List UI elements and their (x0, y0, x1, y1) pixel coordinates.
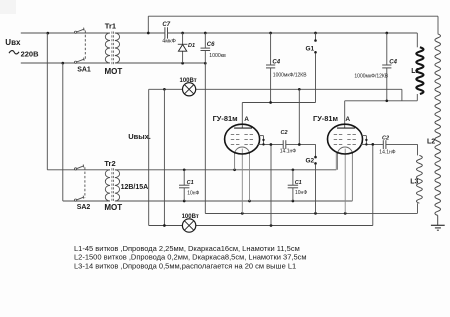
svg-text:МОТ: МОТ (104, 203, 122, 212)
svg-text:Uвых.: Uвых. (128, 132, 151, 141)
svg-text:1000мкФ/12КВ: 1000мкФ/12КВ (273, 73, 307, 79)
svg-text:C1: C1 (187, 180, 194, 186)
svg-text:SA2: SA2 (77, 204, 91, 211)
svg-text:100Вт: 100Вт (182, 214, 199, 220)
svg-text:C7: C7 (162, 22, 170, 28)
svg-text:D1: D1 (188, 43, 195, 49)
svg-text:12В/15А: 12В/15А (121, 184, 149, 191)
svg-text:1000кв: 1000кв (209, 53, 226, 59)
svg-text:C1: C1 (295, 180, 302, 186)
svg-text:4мкФ: 4мкФ (162, 38, 176, 44)
svg-text:A: A (244, 116, 249, 123)
svg-text:G1: G1 (306, 46, 315, 53)
svg-text:ГУ-81м: ГУ-81м (313, 114, 338, 123)
svg-text:C2: C2 (382, 136, 389, 142)
svg-text:220В: 220В (21, 49, 40, 58)
svg-text:C2: C2 (281, 130, 288, 136)
svg-text:Tr1: Tr1 (105, 21, 116, 30)
svg-text:10нФ: 10нФ (295, 190, 307, 196)
svg-text:C4: C4 (389, 59, 397, 65)
svg-text:SA1: SA1 (77, 67, 91, 74)
svg-text:1000мкФ/12КВ: 1000мкФ/12КВ (354, 74, 388, 80)
svg-text:L1: L1 (411, 68, 419, 75)
svg-text:L2: L2 (427, 139, 435, 146)
svg-text:L3: L3 (410, 178, 418, 185)
svg-text:L3-14 витков ,Dпровода 0,5мм,р: L3-14 витков ,Dпровода 0,5мм,располагает… (74, 262, 296, 271)
svg-text:ГУ-81м: ГУ-81м (213, 114, 238, 123)
svg-text:Tr2: Tr2 (104, 159, 115, 168)
svg-text:10нФ: 10нФ (187, 190, 199, 196)
svg-text:100Вт: 100Вт (180, 78, 197, 84)
svg-text:МОТ: МОТ (105, 67, 123, 76)
svg-text:C6: C6 (207, 42, 215, 48)
svg-text:Uвх: Uвх (5, 38, 21, 47)
svg-text:A: A (345, 116, 350, 123)
svg-text:G2: G2 (306, 158, 315, 165)
svg-text:C4: C4 (272, 59, 280, 65)
svg-text:14.1нФ: 14.1нФ (280, 148, 296, 154)
svg-text:14.1нФ: 14.1нФ (379, 150, 395, 156)
svg-text:L1-45 витков ,Dпровода 2,25мм,: L1-45 витков ,Dпровода 2,25мм, Dкаркаса1… (74, 244, 300, 253)
svg-text:L2-1500 витков ,Dпровода 0,2мм: L2-1500 витков ,Dпровода 0,2мм, Dкаркаса… (74, 253, 307, 262)
